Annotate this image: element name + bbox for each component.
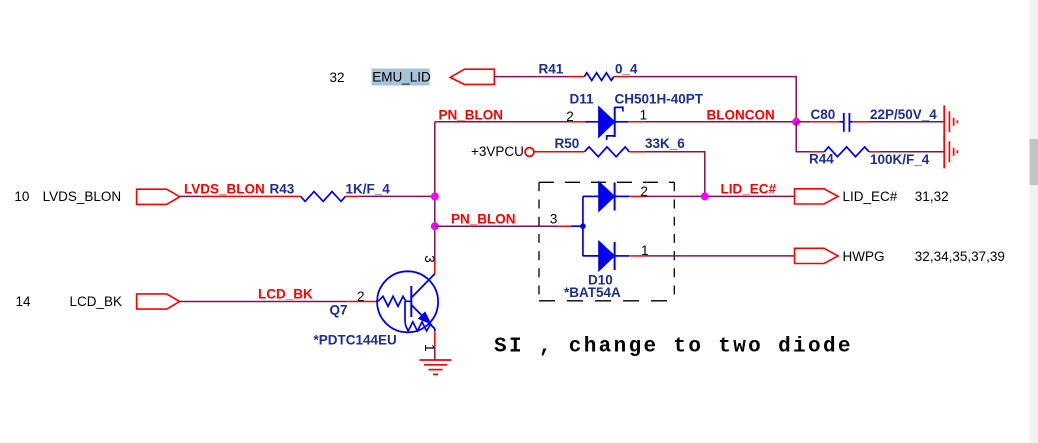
svg-text:HWPG: HWPG (843, 249, 885, 264)
resistor R50 (534, 147, 645, 157)
svg-text:33K_6: 33K_6 (645, 136, 685, 151)
svg-text:1K/F_4: 1K/F_4 (346, 181, 391, 196)
transistor Q7 (377, 271, 438, 332)
junction LID_EC# node (701, 192, 709, 200)
scrollbar track (1030, 0, 1038, 443)
svg-text:EMU_LID: EMU_LID (372, 70, 431, 85)
svg-text:LID_EC#: LID_EC# (843, 189, 898, 204)
svg-text:10: 10 (14, 189, 29, 204)
svg-text:LVDS_BLON: LVDS_BLON (184, 181, 265, 196)
wire emitter stub (434, 331, 436, 359)
svg-text:22P/50V_4: 22P/50V_4 (870, 107, 937, 122)
svg-text:Q7: Q7 (330, 303, 348, 318)
net name EMU_LID (highlighted) (372, 69, 431, 86)
off-page connector EMU_LID (450, 69, 494, 84)
svg-text:LVDS_BLON: LVDS_BLON (43, 189, 122, 204)
resistor R44 (810, 147, 880, 157)
svg-text:3: 3 (550, 211, 558, 226)
svg-text:CH501H-40PT: CH501H-40PT (615, 92, 704, 107)
svg-text:PN_BLON: PN_BLON (451, 211, 516, 226)
junction PN_BLON branch (431, 222, 439, 230)
wire PN_BLON to D10 (435, 225, 583, 227)
svg-text:C80: C80 (811, 107, 836, 122)
svg-text:1: 1 (640, 107, 648, 122)
diode D10-B (bottom) (583, 241, 645, 271)
junction BLONCON node (792, 118, 800, 126)
svg-text:SI , change to two diode: SI , change to two diode (494, 336, 853, 359)
svg-text:1: 1 (422, 344, 437, 352)
wire EMU_LID to R41 (494, 76, 570, 78)
svg-text:2: 2 (357, 289, 365, 304)
resistor R41 (570, 73, 629, 81)
svg-text:*PDTC144EU: *PDTC144EU (314, 333, 397, 348)
diode D11 (569, 107, 645, 140)
svg-text:*BAT54A: *BAT54A (564, 285, 621, 300)
node inside D10 (blue junction) (580, 223, 586, 229)
off-page connector LCD_BK (137, 294, 180, 309)
wire collector stub (434, 258, 436, 274)
svg-text:BLONCON: BLONCON (707, 108, 775, 123)
wire vertical main bus x=435 (434, 122, 436, 258)
wire R43 to junction (359, 195, 435, 197)
resistor R43 (199, 192, 359, 202)
wire D10-A to LID_EC# connector (645, 195, 795, 197)
svg-text:LID_EC#: LID_EC# (721, 182, 777, 197)
wire LCD_BK (180, 301, 378, 303)
wire junction down to R44 (796, 122, 810, 152)
wire R44 to ground (880, 151, 944, 153)
svg-text:R43: R43 (270, 181, 295, 196)
scrollbar thumb (1030, 139, 1038, 185)
wire D10-B to HWPG connector (645, 255, 795, 257)
diode pack D10 dashed outline (539, 182, 674, 300)
off-page connector LVDS_BLON (137, 189, 180, 204)
svg-text:0_4: 0_4 (615, 62, 638, 77)
off-page connector LID_EC# (795, 189, 839, 204)
wire PN_BLON top row (435, 121, 569, 123)
svg-text:32: 32 (330, 70, 345, 85)
wire connector to R43 (180, 195, 199, 197)
svg-text:100K/F_4: 100K/F_4 (870, 152, 930, 167)
wire C80 to ground (869, 121, 944, 123)
svg-text:32,34,35,37,39: 32,34,35,37,39 (915, 249, 1005, 264)
svg-text:D11: D11 (570, 92, 595, 107)
off-page connector HWPG (795, 248, 839, 263)
svg-text:R44: R44 (809, 152, 834, 167)
capacitor C80 (796, 113, 868, 132)
svg-text:PN_BLON: PN_BLON (439, 108, 504, 123)
ground (rotated) at C80 (944, 105, 957, 138)
ground (earth) at Q7 (420, 360, 452, 374)
svg-text:31,32: 31,32 (915, 189, 949, 204)
power +3VPCU (471, 144, 534, 159)
ground (rotated) at R44 (944, 135, 957, 168)
wire R41 to corner (629, 77, 796, 122)
svg-text:LCD_BK: LCD_BK (258, 287, 313, 302)
junction R43/bus (431, 192, 439, 200)
svg-text:+3VPCU: +3VPCU (471, 144, 524, 159)
svg-text:14: 14 (16, 294, 32, 309)
diode D10-A (top) (583, 182, 645, 212)
wire D11 to junction (645, 121, 796, 123)
svg-text:R41: R41 (539, 62, 564, 77)
svg-text:R50: R50 (555, 136, 580, 151)
wire blue branch vertical inside D10 (582, 196, 584, 256)
wire R50 to LID_EC# junction (645, 152, 705, 197)
svg-text:3: 3 (422, 255, 437, 263)
svg-text:LCD_BK: LCD_BK (70, 294, 123, 309)
